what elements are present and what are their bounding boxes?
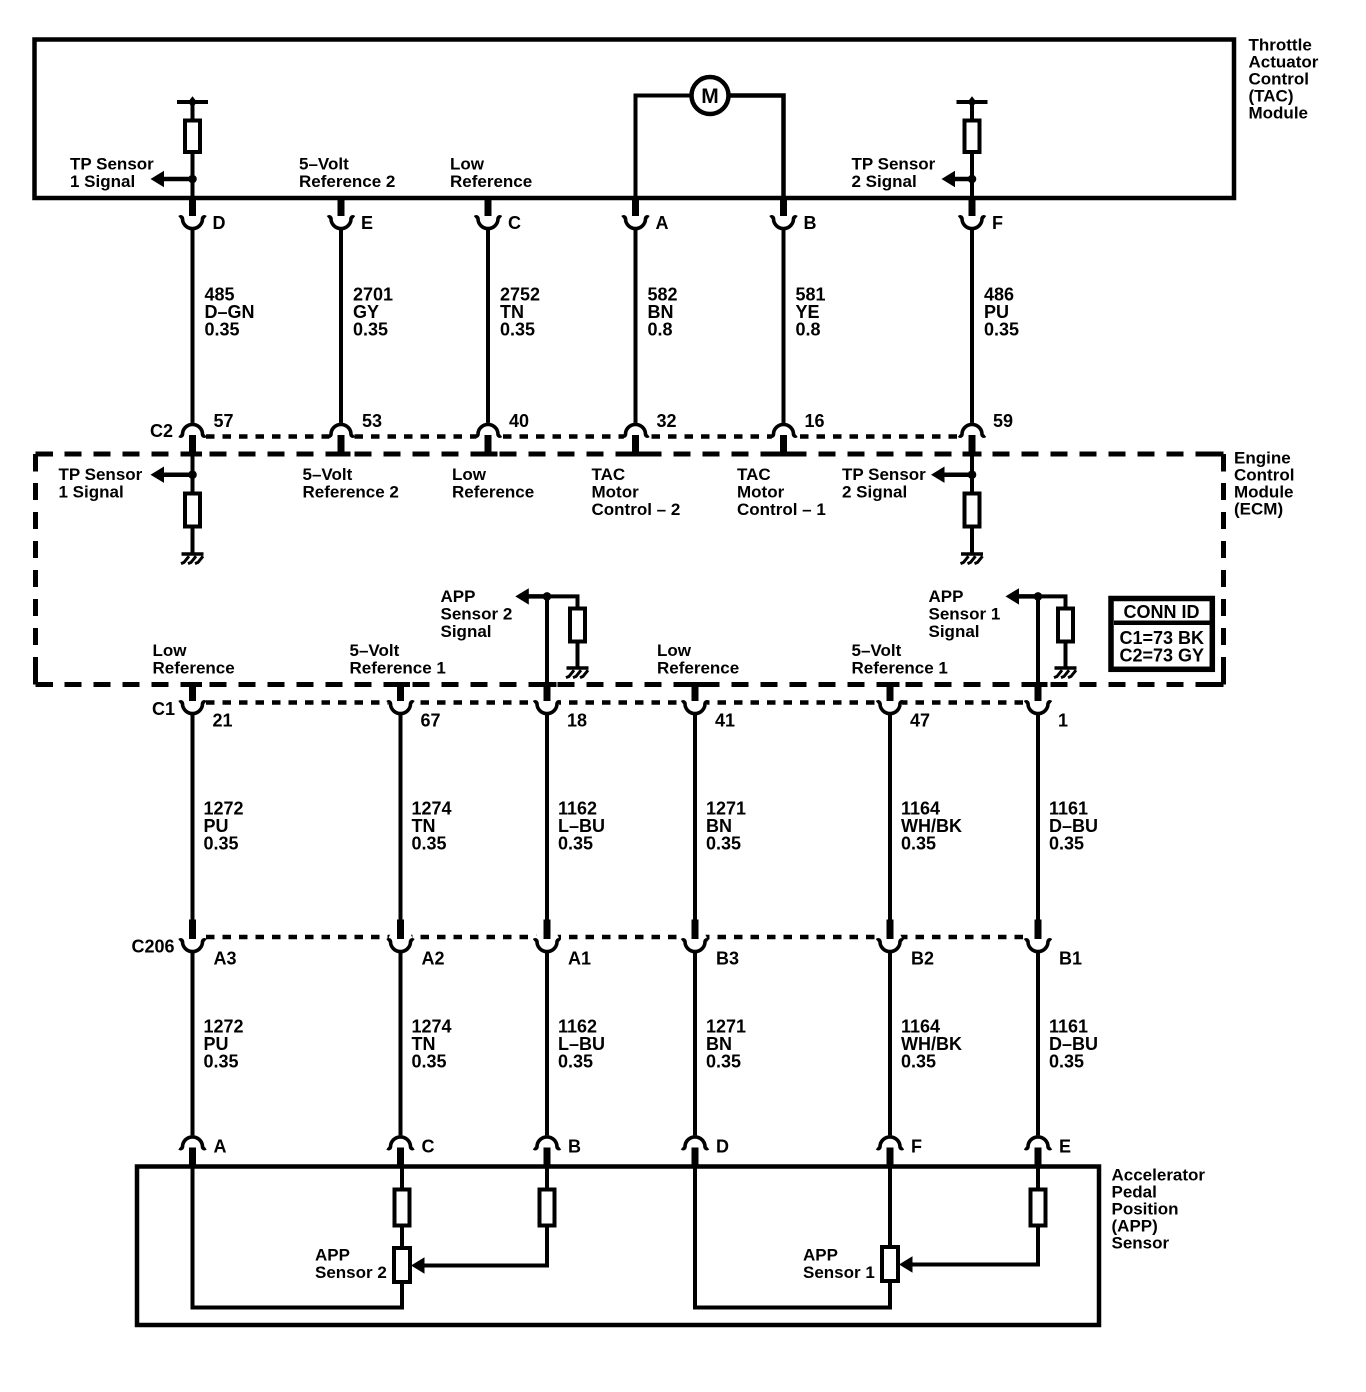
connector C206 cavity pin A1 [534, 929, 560, 953]
svg-text:40: 40 [509, 411, 529, 431]
svg-text:Module: Module [1249, 103, 1309, 122]
svg-text:D: D [716, 1137, 729, 1157]
wire pin E wiper (APP1) [912, 1167, 1038, 1265]
svg-text:67: 67 [421, 711, 441, 731]
svg-text:A2: A2 [422, 949, 445, 969]
svg-text:E: E [361, 213, 373, 233]
APP Sensor 2 Signal arrow (ECM) [527, 594, 547, 599]
svg-text:A3: A3 [214, 949, 237, 969]
wire 1274 TN segment C206 to APP [399, 952, 403, 1136]
resistor (ECM APP1) [1058, 609, 1073, 642]
svg-text:B3: B3 [716, 949, 739, 969]
wire 1272 PU segment C1 to C206 [191, 714, 195, 921]
CONN ID table box [1111, 599, 1212, 670]
TAC module box [35, 40, 1235, 199]
wire pin B wiper (APP2) [424, 1167, 547, 1266]
svg-text:Signal: Signal [929, 622, 980, 641]
svg-text:CONN ID: CONN ID [1124, 602, 1200, 622]
svg-text:59: 59 [993, 411, 1013, 431]
svg-text:2 Signal: 2 Signal [842, 483, 907, 502]
wire potentiometer to low ref (APP2) [400, 1282, 404, 1310]
svg-text:Signal: Signal [441, 622, 492, 641]
svg-text:0.35: 0.35 [901, 1052, 936, 1072]
svg-text:APP: APP [929, 587, 964, 606]
svg-text:0.35: 0.35 [984, 320, 1019, 340]
connector C2 cavity pin 32 [622, 423, 648, 447]
svg-text:Reference: Reference [450, 172, 532, 191]
CONN ID header separator [1114, 620, 1210, 625]
connector C206 cavity pin B3 [682, 929, 708, 953]
APP sensor pin E connector [1025, 1135, 1051, 1159]
wire pin D low reference (APP1) [695, 1167, 890, 1308]
connector C2 cavity pin 53 [328, 423, 354, 447]
svg-text:TP Sensor: TP Sensor [852, 155, 936, 174]
APP sensor pin D connector [682, 1135, 708, 1159]
svg-text:0.35: 0.35 [706, 834, 741, 854]
TP Sensor 1 Signal arrow (ECM) [163, 472, 193, 477]
resistor (APP sensor 2 series) [395, 1190, 410, 1226]
connector C2 cavity pin 40 [475, 423, 501, 447]
svg-text:D: D [213, 213, 226, 233]
connector C2 cavity pin 57 [179, 423, 205, 447]
svg-text:B: B [804, 213, 817, 233]
ECM border dashes at pin crossings [183, 452, 202, 457]
connector C1 cavity pin 47 [877, 691, 903, 715]
svg-text:B1: B1 [1059, 949, 1082, 969]
resistor (ECM TP1) [185, 494, 200, 527]
connector C2 cavity pin 59 [959, 423, 985, 447]
svg-text:5–Volt: 5–Volt [350, 641, 400, 660]
svg-text:0.35: 0.35 [901, 834, 936, 854]
wire pin F to potentiometer (APP1) [888, 1167, 892, 1249]
connector C206 dashed pin line [206, 935, 1026, 940]
wire 1162 L–BU segment C1 to C206 [545, 714, 549, 921]
wire 1272 PU segment C206 to APP [191, 952, 195, 1136]
wire 1271 BN segment C1 to C206 [693, 714, 697, 921]
ECM border corner dashes [36, 452, 54, 457]
svg-text:Reference: Reference [657, 659, 739, 678]
TAC pin E connector [328, 206, 354, 230]
TAC pin B connector [770, 206, 796, 230]
wire junction to resistor (APP1) [1038, 596, 1066, 610]
wire 1164 WH/BK segment C1 to C206 [888, 714, 892, 921]
wire 581 YE segment TAC to C2 [782, 229, 786, 425]
wire 1271 BN segment C206 to APP [693, 952, 697, 1136]
svg-text:APP: APP [441, 587, 476, 606]
svg-text:A1: A1 [568, 949, 591, 969]
svg-text:TAC: TAC [737, 465, 771, 484]
svg-text:Sensor 1: Sensor 1 [929, 605, 1001, 624]
connector C1 cavity pin 41 [682, 691, 708, 715]
ECM module dashed box [36, 452, 1224, 457]
resistor (APP sensor 2 wiper) [540, 1190, 555, 1226]
connector C206 cavity pin A3 [179, 929, 205, 953]
svg-text:F: F [911, 1137, 922, 1157]
wire pin C 5V (APP2) [400, 1167, 404, 1191]
svg-text:C: C [508, 213, 521, 233]
TAC pin D connector [179, 206, 205, 230]
svg-text:TAC: TAC [592, 465, 626, 484]
svg-text:1: 1 [1058, 711, 1068, 731]
wire T-bar to resistor R2 [970, 102, 974, 121]
wire potentiometer to low ref (APP1) [888, 1281, 892, 1310]
svg-text:Low: Low [153, 641, 188, 660]
ground (ECM APP2) [566, 668, 589, 678]
svg-text:Motor: Motor [737, 483, 785, 502]
wire T-bar to resistor R1 [191, 102, 195, 121]
svg-text:A: A [656, 213, 669, 233]
APP sensor pin C connector [387, 1135, 413, 1159]
5V supply T-bar (TP sensor 1) [177, 96, 208, 108]
svg-text:Control – 2: Control – 2 [592, 500, 681, 519]
svg-text:M: M [701, 85, 719, 108]
svg-text:Reference 2: Reference 2 [299, 172, 395, 191]
svg-text:C1: C1 [152, 699, 175, 719]
svg-text:0.35: 0.35 [500, 320, 535, 340]
TP Sensor 1 Signal arrow [163, 177, 193, 182]
connector C1 cavity pin 1 [1025, 691, 1051, 715]
svg-text:0.8: 0.8 [648, 320, 673, 340]
svg-text:Reference 1: Reference 1 [350, 659, 446, 678]
junction TP Sensor 1 Signal [188, 175, 197, 184]
potentiometer track APP Sensor 2 [394, 1248, 410, 1282]
svg-text:0.35: 0.35 [412, 1052, 447, 1072]
svg-text:5–Volt: 5–Volt [303, 465, 353, 484]
ground (ECM TP2) [961, 554, 984, 564]
wire resistor to ground (APP2) [576, 641, 580, 667]
svg-text:2 Signal: 2 Signal [852, 172, 917, 191]
wire resistor to potentiometer (APP2) [400, 1226, 404, 1250]
svg-text:57: 57 [214, 411, 234, 431]
svg-text:Low: Low [657, 641, 692, 660]
svg-text:1 Signal: 1 Signal [59, 483, 124, 502]
svg-text:0.35: 0.35 [412, 834, 447, 854]
connector C1 dashed pin line [206, 700, 1026, 705]
resistor (ECM APP2) [570, 609, 585, 642]
svg-text:C2=73 GY: C2=73 GY [1120, 646, 1205, 666]
APP Sensor 1 Signal arrow (ECM) [1018, 594, 1039, 599]
svg-text:TP Sensor: TP Sensor [59, 465, 143, 484]
svg-text:TP Sensor: TP Sensor [70, 155, 154, 174]
svg-text:0.35: 0.35 [558, 834, 593, 854]
wire 2752 TN segment TAC to C2 [486, 229, 490, 425]
svg-text:53: 53 [362, 411, 382, 431]
TP Sensor 2 Signal arrow [954, 177, 973, 182]
svg-text:C206: C206 [132, 937, 175, 957]
wire resistor to ground (APP1) [1064, 641, 1068, 667]
wiper arrow APP Sensor 2 [411, 1257, 425, 1273]
wire motor right lead [729, 96, 784, 198]
ground (ECM APP1) [1054, 668, 1077, 678]
wire 582 BN segment TAC to C2 [634, 229, 638, 425]
TAC pin F connector [959, 206, 985, 230]
wire junction to resistor (APP2) [547, 596, 578, 610]
potentiometer track APP Sensor 1 [882, 1247, 898, 1281]
connector C2 dashed pin line [206, 434, 961, 439]
connector C1 cavity pin 67 [387, 691, 413, 715]
svg-text:B2: B2 [911, 949, 934, 969]
connector C1 cavity pin 18 [534, 691, 560, 715]
APP sensor box [137, 1167, 1099, 1326]
wire C2 to TP2 network (ECM) [970, 455, 974, 495]
svg-text:Reference 1: Reference 1 [852, 659, 948, 678]
junction TP Sensor 2 Signal (ECM) [968, 470, 977, 479]
wire resistor to ground (TP1) [191, 525, 195, 553]
APP sensor pin F connector [877, 1135, 903, 1159]
motor M [692, 77, 729, 114]
junction APP Sensor 2 Signal [543, 592, 552, 601]
svg-text:C2: C2 [150, 421, 173, 441]
svg-text:Low: Low [450, 155, 485, 174]
svg-text:0.35: 0.35 [558, 1052, 593, 1072]
wire APP Sensor 2 signal down to C1 [545, 596, 549, 685]
TAC pin A connector [622, 206, 648, 230]
svg-text:E: E [1059, 1137, 1071, 1157]
svg-text:0.35: 0.35 [204, 834, 239, 854]
junction TP Sensor 2 Signal [968, 175, 977, 184]
resistor (ECM TP2) [965, 494, 980, 527]
connector C206 cavity pin A2 [387, 929, 413, 953]
wire resistor to ground (TP2) [970, 525, 974, 553]
svg-text:F: F [992, 213, 1003, 233]
svg-text:Sensor 2: Sensor 2 [315, 1263, 387, 1282]
wiper arrow APP Sensor 1 [899, 1256, 913, 1272]
svg-text:5–Volt: 5–Volt [852, 641, 902, 660]
wire 2701 GY segment TAC to C2 [339, 229, 343, 425]
resistor (APP sensor 1 wiper) [1031, 1190, 1046, 1226]
svg-text:C: C [422, 1137, 435, 1157]
wire 1162 L–BU segment C206 to APP [545, 952, 549, 1136]
svg-text:0.35: 0.35 [204, 1052, 239, 1072]
svg-text:B: B [568, 1137, 581, 1157]
wire APP Sensor 1 signal down to C1 [1036, 596, 1040, 685]
svg-text:32: 32 [657, 411, 677, 431]
wire 1164 WH/BK segment C206 to APP [888, 952, 892, 1136]
wire 1274 TN segment C1 to C206 [399, 714, 403, 921]
wire 1161 D–BU segment C1 to C206 [1036, 714, 1040, 921]
resistor R2 (TP sensor 2 pull-up) [965, 121, 980, 153]
TP Sensor 2 Signal arrow (ECM) [943, 472, 972, 477]
svg-text:APP: APP [803, 1246, 838, 1265]
connector C206 cavity pin B2 [877, 929, 903, 953]
APP sensor pin A connector [179, 1135, 205, 1159]
svg-text:18: 18 [567, 711, 587, 731]
svg-text:Reference 2: Reference 2 [303, 483, 399, 502]
wire C2 to TP1 network (ECM) [191, 455, 195, 495]
svg-text:0.35: 0.35 [205, 320, 240, 340]
connector C2 cavity pin 16 [770, 423, 796, 447]
svg-text:0.35: 0.35 [353, 320, 388, 340]
svg-text:47: 47 [910, 711, 930, 731]
junction TP Sensor 1 Signal (ECM) [188, 470, 197, 479]
svg-text:0.35: 0.35 [706, 1052, 741, 1072]
wire pin A low reference (APP2) [193, 1167, 403, 1308]
5V supply T-bar (TP sensor 2) [957, 96, 988, 108]
svg-text:APP: APP [315, 1246, 350, 1265]
resistor R1 (TP sensor 1 pull-up) [185, 121, 200, 153]
svg-text:Reference: Reference [452, 483, 534, 502]
junction APP Sensor 1 Signal [1034, 592, 1043, 601]
svg-text:0.8: 0.8 [796, 320, 821, 340]
svg-text:5–Volt: 5–Volt [299, 155, 349, 174]
svg-text:Sensor 1: Sensor 1 [803, 1263, 875, 1282]
ground (ECM TP1) [181, 554, 204, 564]
wire resistor R1 to pin [191, 152, 195, 198]
svg-text:Sensor: Sensor [1112, 1234, 1170, 1253]
wire motor left lead [636, 96, 692, 198]
connector C206 cavity pin B1 [1025, 929, 1051, 953]
TAC pin C connector [475, 206, 501, 230]
svg-text:41: 41 [715, 711, 735, 731]
wire 485 D–GN segment TAC to C2 [191, 229, 195, 425]
svg-text:21: 21 [213, 711, 233, 731]
svg-text:Motor: Motor [592, 483, 640, 502]
connector C1 cavity pin 21 [179, 691, 205, 715]
svg-text:16: 16 [805, 411, 825, 431]
wire resistor R2 to pin [970, 152, 974, 198]
svg-text:Reference: Reference [153, 659, 235, 678]
wire 1161 D–BU segment C206 to APP [1036, 952, 1040, 1136]
svg-text:Low: Low [452, 465, 487, 484]
svg-text:Sensor 2: Sensor 2 [441, 605, 513, 624]
svg-text:Control – 1: Control – 1 [737, 500, 826, 519]
svg-text:0.35: 0.35 [1049, 1052, 1084, 1072]
svg-text:1 Signal: 1 Signal [70, 172, 135, 191]
APP sensor pin B connector [534, 1135, 560, 1159]
svg-text:A: A [214, 1137, 227, 1157]
wire 486 PU segment TAC to C2 [970, 229, 974, 425]
svg-text:(ECM): (ECM) [1234, 500, 1283, 519]
svg-text:TP Sensor: TP Sensor [842, 465, 926, 484]
svg-text:0.35: 0.35 [1049, 834, 1084, 854]
